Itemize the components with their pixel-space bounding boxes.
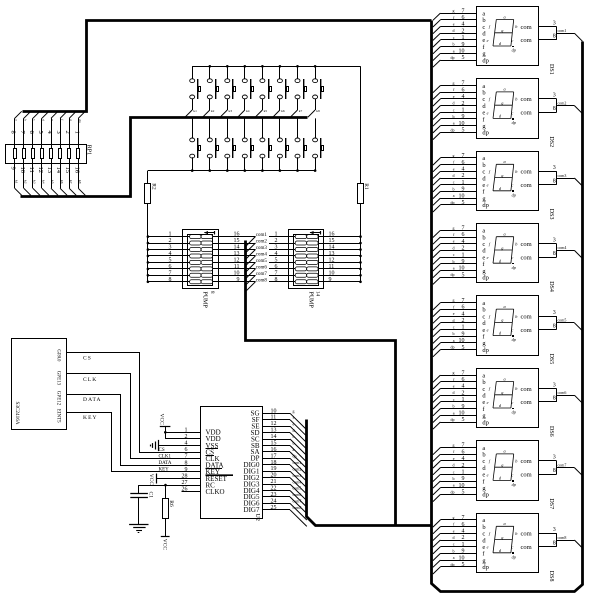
svg-text:DS7: DS7 (548, 498, 554, 509)
svg-text:15: 15 (271, 441, 277, 447)
svg-text:d: d (453, 535, 455, 540)
svg-text:9: 9 (237, 277, 240, 283)
svg-text:k1: k1 (193, 109, 197, 113)
svg-text:7: 7 (169, 270, 172, 276)
svg-text:CLKO: CLKO (206, 488, 225, 496)
svg-text:8: 8 (169, 277, 172, 283)
svg-text:2: 2 (64, 131, 71, 134)
svg-text:10: 10 (459, 555, 465, 561)
svg-text:dp: dp (482, 492, 489, 499)
svg-text:3: 3 (553, 527, 556, 533)
svg-text:b: b (293, 441, 295, 446)
svg-text:com5: com5 (558, 318, 567, 323)
svg-text:e: e (293, 421, 295, 426)
svg-text:8: 8 (10, 131, 17, 134)
svg-text:DS4: DS4 (548, 281, 554, 292)
svg-text:c: c (453, 397, 455, 402)
svg-text:com7: com7 (293, 499, 302, 504)
svg-text:R6: R6 (168, 500, 174, 507)
svg-text:5: 5 (37, 131, 44, 134)
svg-text:6: 6 (462, 87, 465, 93)
svg-text:g: g (293, 409, 295, 414)
svg-text:9: 9 (462, 114, 465, 120)
svg-text:com: com (521, 458, 532, 465)
svg-text:com: com (521, 327, 532, 334)
svg-text:dp: dp (451, 200, 455, 205)
svg-text:a: a (504, 449, 506, 454)
svg-text:k7: k7 (299, 109, 303, 113)
svg-text:24: 24 (271, 498, 277, 504)
svg-text:5: 5 (462, 562, 465, 568)
svg-text:c: c (453, 252, 455, 257)
svg-text:dp: dp (482, 564, 489, 571)
svg-text:DS8: DS8 (548, 571, 554, 582)
svg-text:4: 4 (462, 456, 465, 462)
svg-text:dp: dp (482, 275, 489, 282)
svg-text:e: e (453, 166, 455, 171)
svg-text:com8: com8 (256, 278, 268, 283)
svg-text:com: com (521, 472, 532, 479)
svg-text:com1: com1 (256, 233, 268, 238)
svg-text:8: 8 (553, 251, 556, 257)
svg-text:a: a (504, 232, 506, 237)
svg-text:1: 1 (462, 397, 465, 403)
svg-text:5: 5 (462, 345, 465, 351)
svg-text:6: 6 (462, 232, 465, 238)
svg-text:com3: com3 (256, 246, 268, 251)
svg-text:a: a (453, 338, 455, 343)
svg-text:dp: dp (482, 130, 489, 137)
svg-text:e: e (453, 311, 455, 316)
svg-text:13: 13 (271, 428, 277, 434)
svg-text:9: 9 (10, 167, 17, 170)
svg-text:e: e (453, 456, 455, 461)
svg-text:c: c (511, 472, 513, 477)
svg-text:VCC: VCC (159, 414, 165, 426)
svg-text:2: 2 (462, 28, 465, 34)
svg-text:k2: k2 (211, 109, 215, 113)
svg-text:com: com (521, 96, 532, 103)
svg-text:c: c (453, 469, 455, 474)
svg-text:dp: dp (482, 419, 489, 426)
svg-text:e: e (453, 384, 455, 389)
svg-text:14: 14 (271, 434, 277, 440)
svg-text:c: c (453, 180, 455, 185)
svg-text:6: 6 (462, 15, 465, 21)
svg-text:1: 1 (462, 325, 465, 331)
svg-text:3: 3 (553, 165, 556, 171)
svg-text:15: 15 (329, 238, 335, 244)
svg-text:g: g (453, 153, 455, 158)
svg-text:d: d (453, 318, 455, 323)
svg-text:3: 3 (553, 20, 556, 26)
svg-text:e: e (487, 183, 489, 188)
svg-text:7: 7 (462, 515, 465, 521)
svg-text:3: 3 (275, 245, 278, 251)
svg-text:b: b (453, 42, 455, 47)
svg-text:a: a (453, 555, 455, 560)
svg-text:3: 3 (553, 455, 556, 461)
svg-text:6: 6 (275, 264, 278, 270)
svg-text:4: 4 (462, 239, 465, 245)
svg-text:2: 2 (462, 173, 465, 179)
svg-text:a: a (504, 304, 506, 309)
svg-text:dp: dp (78, 119, 82, 123)
svg-text:k3: k3 (33, 180, 37, 184)
svg-text:10: 10 (19, 167, 26, 174)
svg-text:8: 8 (553, 179, 556, 185)
svg-text:KEY: KEY (83, 415, 98, 421)
svg-text:g: g (69, 119, 73, 121)
svg-text:7: 7 (275, 270, 278, 276)
svg-text:10: 10 (234, 270, 240, 276)
svg-text:10: 10 (329, 270, 335, 276)
svg-text:b: b (453, 259, 455, 264)
svg-text:6: 6 (169, 264, 172, 270)
svg-text:2: 2 (462, 101, 465, 107)
svg-text:EINT5: EINT5 (55, 409, 60, 423)
svg-text:21: 21 (271, 479, 277, 485)
svg-text:a: a (504, 159, 506, 164)
svg-text:e: e (453, 94, 455, 99)
svg-text:dp: dp (482, 57, 489, 64)
svg-text:b: b (24, 119, 28, 121)
svg-text:d: d (453, 463, 455, 468)
svg-text:c: c (511, 545, 513, 550)
svg-text:3: 3 (553, 238, 556, 244)
svg-text:com8: com8 (558, 535, 567, 540)
svg-text:1: 1 (462, 470, 465, 476)
svg-text:1: 1 (462, 35, 465, 41)
svg-text:e: e (487, 400, 489, 405)
svg-text:4: 4 (462, 384, 465, 390)
svg-text:GPA0: GPA0 (55, 349, 60, 362)
svg-text:R1: R1 (363, 183, 369, 190)
svg-text:4: 4 (462, 167, 465, 173)
svg-text:9: 9 (462, 549, 465, 555)
svg-text:k4: k4 (42, 180, 46, 184)
svg-text:dp: dp (451, 562, 455, 567)
svg-text:com: com (521, 254, 532, 261)
svg-text:dp: dp (482, 347, 489, 354)
svg-text:11: 11 (28, 167, 35, 173)
svg-text:6: 6 (462, 449, 465, 455)
svg-text:14: 14 (55, 167, 62, 174)
svg-text:1: 1 (462, 252, 465, 258)
svg-text:4: 4 (275, 251, 278, 257)
svg-text:9: 9 (462, 42, 465, 48)
svg-text:com: com (521, 182, 532, 189)
svg-text:9: 9 (329, 277, 332, 283)
svg-text:1: 1 (275, 232, 278, 238)
svg-text:5: 5 (275, 257, 278, 263)
svg-text:2: 2 (462, 390, 465, 396)
svg-text:com8: com8 (293, 505, 302, 510)
svg-text:8: 8 (553, 396, 556, 402)
svg-text:3: 3 (169, 245, 172, 251)
svg-text:a: a (504, 87, 506, 92)
svg-text:2: 2 (462, 535, 465, 541)
svg-text:com4: com4 (293, 479, 302, 484)
svg-text:k3: k3 (229, 109, 233, 113)
svg-text:13: 13 (46, 167, 53, 174)
svg-text:com: com (521, 399, 532, 406)
svg-text:com2: com2 (256, 240, 268, 245)
svg-text:GPE12: GPE12 (55, 391, 60, 406)
svg-text:com: com (521, 24, 532, 31)
svg-text:dp: dp (451, 272, 455, 277)
svg-text:com1: com1 (293, 460, 302, 465)
svg-text:16: 16 (271, 447, 277, 453)
svg-text:23: 23 (271, 492, 277, 498)
svg-text:com7: com7 (558, 462, 567, 467)
svg-text:c: c (511, 255, 513, 260)
svg-text:5: 5 (462, 200, 465, 206)
svg-text:com4: com4 (256, 253, 268, 258)
svg-text:com: com (521, 110, 532, 117)
svg-text:b: b (453, 186, 455, 191)
svg-text:d: d (453, 28, 455, 33)
svg-text:9: 9 (462, 476, 465, 482)
svg-text:com5: com5 (256, 259, 268, 264)
svg-text:com2: com2 (558, 100, 567, 105)
svg-text:3: 3 (553, 310, 556, 316)
svg-text:dp: dp (451, 127, 455, 132)
svg-text:6: 6 (462, 305, 465, 311)
svg-text:a: a (504, 376, 506, 381)
svg-text:C1: C1 (148, 492, 154, 499)
svg-text:10: 10 (459, 411, 465, 417)
svg-text:k4: k4 (246, 109, 250, 113)
svg-text:g: g (453, 443, 455, 448)
svg-text:3: 3 (55, 131, 62, 134)
svg-text:d: d (453, 245, 455, 250)
svg-text:4: 4 (169, 251, 172, 257)
svg-text:6: 6 (462, 160, 465, 166)
svg-text:k5: k5 (264, 109, 268, 113)
svg-text:e: e (487, 472, 489, 477)
svg-text:9: 9 (462, 259, 465, 265)
svg-text:a: a (453, 483, 455, 488)
svg-text:c: c (453, 325, 455, 330)
svg-text:10: 10 (459, 483, 465, 489)
svg-text:DS3: DS3 (548, 209, 554, 220)
svg-text:RP1: RP1 (85, 145, 91, 155)
svg-text:e: e (487, 328, 489, 333)
svg-text:13: 13 (234, 251, 240, 257)
svg-text:7: 7 (462, 81, 465, 87)
svg-text:dp: dp (451, 345, 455, 350)
svg-text:e: e (487, 38, 489, 43)
svg-text:e: e (487, 545, 489, 550)
svg-text:c: c (453, 542, 455, 547)
svg-text:R2: R2 (151, 183, 157, 190)
svg-text:5: 5 (462, 55, 465, 61)
svg-text:4: 4 (462, 529, 465, 535)
svg-text:com: com (521, 544, 532, 551)
svg-text:16: 16 (234, 232, 240, 238)
svg-text:k8: k8 (78, 180, 82, 184)
svg-text:k1: k1 (14, 180, 18, 184)
svg-text:9: 9 (462, 331, 465, 337)
svg-text:com: com (521, 169, 532, 176)
svg-text:2: 2 (462, 318, 465, 324)
svg-text:GPE13: GPE13 (55, 371, 60, 386)
svg-text:com3: com3 (293, 473, 302, 478)
svg-text:com4: com4 (558, 245, 567, 250)
svg-text:22: 22 (271, 486, 277, 492)
svg-text:7: 7 (462, 226, 465, 232)
svg-text:2: 2 (275, 238, 278, 244)
svg-text:VCC: VCC (148, 474, 154, 486)
svg-text:d: d (293, 428, 295, 433)
svg-text:a: a (453, 48, 455, 53)
svg-text:20: 20 (271, 473, 277, 479)
svg-text:com6: com6 (256, 266, 268, 271)
svg-text:d: d (42, 119, 46, 121)
svg-text:2: 2 (462, 463, 465, 469)
svg-text:g: g (453, 81, 455, 86)
svg-text:4: 4 (462, 311, 465, 317)
svg-text:CLK1: CLK1 (159, 455, 172, 460)
svg-text:10: 10 (459, 121, 465, 127)
svg-text:1: 1 (462, 108, 465, 114)
svg-text:VCC: VCC (162, 539, 168, 551)
svg-text:8: 8 (275, 277, 278, 283)
svg-text:com6: com6 (293, 492, 302, 497)
svg-text:CS: CS (83, 356, 92, 362)
svg-text:5: 5 (169, 257, 172, 263)
svg-text:com: com (521, 531, 532, 538)
svg-text:c: c (453, 107, 455, 112)
svg-text:com: com (521, 313, 532, 320)
svg-text:1: 1 (73, 131, 80, 134)
svg-text:PUMP: PUMP (202, 292, 208, 309)
svg-text:e: e (487, 110, 489, 115)
svg-text:3: 3 (553, 93, 556, 99)
svg-text:c: c (511, 110, 513, 115)
svg-text:a: a (453, 266, 455, 271)
svg-text:12: 12 (271, 421, 277, 427)
svg-text:17: 17 (271, 453, 277, 459)
svg-text:7: 7 (462, 153, 465, 159)
svg-text:d: d (453, 390, 455, 395)
svg-text:dp: dp (451, 417, 455, 422)
svg-text:4: 4 (462, 94, 465, 100)
svg-text:14: 14 (234, 245, 240, 251)
svg-text:3: 3 (553, 382, 556, 388)
svg-text:DIG7: DIG7 (244, 506, 260, 514)
svg-text:com7: com7 (256, 272, 268, 277)
svg-text:g: g (453, 298, 455, 303)
svg-text:dp: dp (451, 55, 455, 60)
svg-text:1: 1 (169, 232, 172, 238)
svg-text:4: 4 (462, 22, 465, 28)
svg-text:e: e (453, 528, 455, 533)
svg-text:11: 11 (234, 264, 240, 270)
svg-text:10: 10 (459, 338, 465, 344)
svg-text:b: b (453, 548, 455, 553)
svg-text:10: 10 (459, 49, 465, 55)
svg-text:15: 15 (234, 238, 240, 244)
svg-text:19: 19 (271, 466, 277, 472)
svg-text:9: 9 (462, 404, 465, 410)
svg-text:6: 6 (462, 522, 465, 528)
svg-text:8: 8 (553, 34, 556, 40)
svg-text:com6: com6 (558, 390, 567, 395)
svg-text:a: a (504, 521, 506, 526)
svg-text:a: a (453, 121, 455, 126)
svg-text:com1: com1 (558, 28, 567, 33)
svg-text:1: 1 (462, 180, 465, 186)
svg-text:5: 5 (462, 417, 465, 423)
svg-text:k5: k5 (51, 180, 55, 184)
svg-text:10: 10 (459, 266, 465, 272)
svg-text:10: 10 (271, 408, 277, 414)
svg-text:dp: dp (482, 202, 489, 209)
svg-text:com3: com3 (558, 173, 567, 178)
svg-text:16: 16 (329, 232, 335, 238)
svg-text:DS1: DS1 (548, 64, 554, 75)
svg-text:U2: U2 (254, 514, 260, 521)
svg-text:e: e (453, 22, 455, 27)
svg-text:c: c (293, 434, 295, 439)
svg-text:g: g (453, 515, 455, 520)
svg-text:CS: CS (159, 448, 165, 453)
svg-text:g: g (453, 370, 455, 375)
svg-text:1: 1 (462, 542, 465, 548)
svg-text:9: 9 (462, 187, 465, 193)
svg-text:dp: dp (451, 489, 455, 494)
svg-text:7: 7 (462, 8, 465, 14)
svg-text:13: 13 (329, 251, 335, 257)
svg-text:5: 5 (462, 490, 465, 496)
svg-text:15: 15 (64, 167, 71, 174)
svg-text:7: 7 (462, 370, 465, 376)
svg-text:g: g (453, 225, 455, 230)
svg-text:k2: k2 (24, 180, 28, 184)
svg-text:PUMP: PUMP (307, 292, 313, 309)
svg-text:dp: dp (293, 454, 297, 459)
svg-text:5: 5 (462, 272, 465, 278)
svg-text:c: c (511, 400, 513, 405)
svg-text:10: 10 (459, 193, 465, 199)
svg-text:a: a (453, 193, 455, 198)
svg-text:8: 8 (553, 541, 556, 547)
svg-text:b: b (453, 114, 455, 119)
svg-text:b: b (453, 476, 455, 481)
svg-text:8: 8 (553, 468, 556, 474)
svg-text:11: 11 (271, 415, 277, 421)
svg-text:8: 8 (553, 323, 556, 329)
svg-text:e: e (453, 239, 455, 244)
svg-text:k8: k8 (316, 109, 320, 113)
svg-text:k7: k7 (69, 180, 73, 184)
svg-text:c: c (511, 328, 513, 333)
svg-text:d: d (453, 173, 455, 178)
svg-text:2: 2 (169, 238, 172, 244)
svg-text:CLK: CLK (83, 377, 97, 383)
svg-text:com: com (521, 241, 532, 248)
svg-text:com: com (521, 386, 532, 393)
svg-text:DATA: DATA (83, 397, 102, 403)
svg-text:25: 25 (271, 505, 277, 511)
svg-text:d: d (453, 101, 455, 106)
svg-text:6: 6 (462, 377, 465, 383)
svg-text:b: b (453, 331, 455, 336)
svg-text:com5: com5 (293, 486, 302, 491)
svg-text:18: 18 (271, 460, 277, 466)
